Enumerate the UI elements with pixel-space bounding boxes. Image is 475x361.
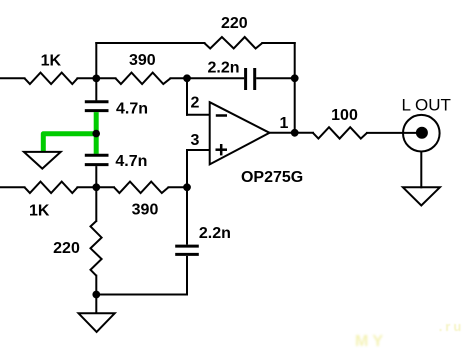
- wire pin 3 horizontal: [186, 149, 211, 151]
- svg-text:390: 390: [129, 52, 156, 69]
- wire C4 to node B2: [95, 166, 97, 187]
- op-amp U1 OP275G triangle: [210, 102, 270, 164]
- svg-text:.ru: .ru: [439, 319, 465, 334]
- resistor 1K (top input): [25, 73, 78, 84]
- ground (bottom): [79, 313, 115, 332]
- resistor 220 (feedback top): [204, 37, 262, 49]
- wire node A up to feedback rail: [95, 42, 97, 79]
- svg-text:2: 2: [191, 94, 200, 111]
- wire R220 to ground node: [95, 275, 97, 296]
- wire pin3 down to node B: [186, 149, 188, 188]
- svg-text:1K: 1K: [29, 202, 50, 219]
- capacitor 2.2n (bottom): [175, 245, 199, 248]
- node output dot: [291, 129, 299, 137]
- svg-text:2.2n: 2.2n: [199, 225, 231, 242]
- svg-text:MY: MY: [355, 333, 387, 350]
- op-amp minus symbol: [216, 114, 227, 117]
- svg-text:220: 220: [53, 240, 80, 257]
- wire ground rail bottom: [96, 294, 188, 296]
- wire feedback rail left: [95, 42, 205, 44]
- svg-text:OP275G: OP275G: [241, 169, 303, 186]
- ground (output jack): [403, 187, 440, 205]
- resistor 100 (output): [313, 127, 367, 138]
- wire input L top: [0, 77, 26, 79]
- resistor 1K (bottom input): [25, 182, 78, 193]
- wire C 2.2n bottom to ground rail: [186, 256, 188, 296]
- wire C 2.2n to right rail: [256, 77, 295, 79]
- svg-text:100: 100: [331, 107, 358, 124]
- wire input L bottom: [0, 186, 26, 188]
- wire feedback rail right: [261, 42, 295, 44]
- node midpoint junction dot: [92, 130, 100, 138]
- resistor 390 (top): [116, 73, 171, 84]
- wire node B2 to R390 bottom: [77, 186, 116, 188]
- node ground junction dot: [92, 291, 100, 299]
- node A dot: [92, 75, 100, 83]
- capacitor 4.7n (upper): [85, 100, 109, 103]
- svg-text:4.7n: 4.7n: [116, 100, 148, 117]
- svg-text:390: 390: [132, 202, 159, 219]
- capacitor 2.2n (feedback): [244, 68, 247, 90]
- svg-text:L OUT: L OUT: [401, 95, 450, 114]
- svg-text:220: 220: [221, 15, 248, 32]
- wire right vertical rail: [294, 42, 296, 134]
- wire R390 to inverting node: [170, 77, 189, 79]
- wire node B down to C 2.2n bottom: [186, 186, 188, 244]
- svg-text:2.2n: 2.2n: [207, 59, 239, 76]
- green wire branch to ground: [43, 134, 96, 151]
- wire inverting input drop: [186, 78, 188, 116]
- node inverting input dot: [183, 74, 191, 82]
- svg-text:3: 3: [191, 132, 200, 149]
- wire node A down to C1: [95, 78, 97, 100]
- wire pin 2 horizontal: [186, 114, 211, 116]
- green wire capacitor midpoint vertical: [94, 112, 99, 154]
- op-amp plus symbol: [216, 148, 228, 151]
- ground (green branch): [24, 152, 61, 169]
- wire R390 bottom to node B: [168, 186, 189, 188]
- wire node B2 down to R220: [95, 187, 97, 222]
- node B dot: [183, 183, 191, 191]
- svg-text:1: 1: [280, 115, 289, 132]
- wire jack to ground: [420, 152, 422, 189]
- resistor 390 (bottom): [114, 182, 169, 193]
- wire op-amp output: [269, 132, 315, 134]
- wire R100 to output jack: [366, 132, 418, 134]
- wire node A to R390 top: [77, 77, 117, 79]
- connector L OUT center pin: [416, 127, 428, 139]
- wire inverting node to C 2.2n: [187, 77, 244, 79]
- wire stem to bottom ground: [95, 295, 97, 315]
- svg-text:4.7n: 4.7n: [115, 153, 147, 170]
- capacitor 4.7n (lower): [85, 154, 109, 157]
- resistor 220 (vertical): [91, 221, 102, 276]
- node B2 dot: [92, 183, 100, 191]
- svg-text:1K: 1K: [41, 52, 62, 69]
- node feedback right dot: [291, 74, 299, 82]
- connector L OUT jack outer circle: [403, 115, 440, 152]
